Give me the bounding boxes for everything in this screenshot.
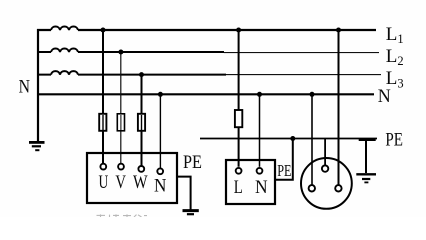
- fuse FU4: [235, 110, 242, 127]
- junction dot L1/socket drop: [336, 28, 341, 33]
- svg-text:V: V: [115, 173, 126, 193]
- wire drop L1 to socket right pin: [338, 30, 340, 185]
- terminal N (single-phase box): [257, 168, 263, 174]
- wire drop N to single-phase box (N): [259, 94, 261, 167]
- socket right pin: [335, 185, 341, 191]
- junction dot N/socket drop: [310, 92, 315, 97]
- terminal V: [118, 164, 124, 170]
- wire drop L2 to three-phase load (V): [120, 52, 121, 164]
- svg-text:PE: PE: [183, 153, 202, 173]
- svg-text:N: N: [255, 178, 268, 198]
- svg-text:PE: PE: [277, 161, 291, 180]
- label cut-off caption (three-phase equipment): [97, 214, 148, 217]
- terminal L: [236, 168, 242, 174]
- junction dot PE/single-phase drop: [290, 136, 295, 141]
- junction dot L2/V drop: [118, 50, 123, 55]
- socket left pin: [309, 185, 315, 191]
- svg-text:PE: PE: [385, 129, 403, 150]
- wire box PE to earth: [177, 177, 191, 210]
- inductor winding phase L2: [51, 49, 78, 52]
- wire PE bus to socket earth pin: [324, 139, 326, 166]
- junction dot N/single-phase drop: [257, 92, 262, 97]
- inductor winding phase L3: [51, 71, 78, 74]
- junction dot L3/W drop: [139, 72, 144, 77]
- wire PE bus to single-phase box: [275, 139, 293, 180]
- terminal W: [138, 166, 144, 172]
- junction dot L1/L drop: [236, 28, 241, 33]
- wire L1 bus: [37, 29, 376, 31]
- ground (three-phase box PE): [183, 211, 199, 215]
- wire N bus: [38, 93, 374, 95]
- socket outlet circle: [301, 158, 352, 209]
- fuse FU1: [99, 114, 106, 131]
- wire PE bus: [200, 138, 377, 140]
- wire drop L3 to three-phase load (W): [141, 75, 143, 166]
- fuse FU2: [117, 114, 124, 131]
- wire L3 bus: [37, 74, 226, 76]
- wire drop L1 to single-phase box (L): [238, 30, 240, 167]
- junction dot L1/U drop: [101, 28, 106, 33]
- svg-text:N: N: [378, 86, 391, 107]
- svg-text:L: L: [234, 178, 243, 198]
- svg-text:W: W: [133, 173, 148, 193]
- svg-text:N: N: [19, 77, 31, 98]
- wire PE bus to earth (right): [365, 139, 367, 174]
- svg-text:U: U: [99, 173, 109, 193]
- wire drop L1 to three-phase load (U): [102, 30, 104, 164]
- wire L2 bus thin right part: [224, 52, 379, 53]
- wire drop N to socket left pin: [311, 94, 313, 185]
- wire left vertical bus (transformer star point to earth): [37, 29, 39, 141]
- inductor winding phase L1: [51, 27, 78, 30]
- fuse FU3: [138, 114, 145, 131]
- terminal N (box): [157, 168, 163, 174]
- tick on PE bus at earth tap: [359, 138, 376, 141]
- socket earth pin: [322, 165, 328, 171]
- junction dot N/box drop: [158, 92, 163, 97]
- three-phase equipment box: [87, 153, 177, 203]
- wire L2 bus: [37, 51, 224, 53]
- ground (PE earthing right): [356, 174, 376, 182]
- wire L3 bus thin right part: [226, 74, 381, 75]
- wire drop N to three-phase load (N): [159, 94, 161, 168]
- terminal U: [100, 164, 106, 170]
- svg-text:N: N: [154, 177, 166, 197]
- ground (transformer neutral earthing): [29, 142, 45, 150]
- wire through fuse FU1: [102, 115, 104, 130]
- wire through fuse FU2: [120, 115, 122, 130]
- single-phase equipment box: [226, 160, 275, 204]
- wire through fuse FU3: [141, 115, 143, 130]
